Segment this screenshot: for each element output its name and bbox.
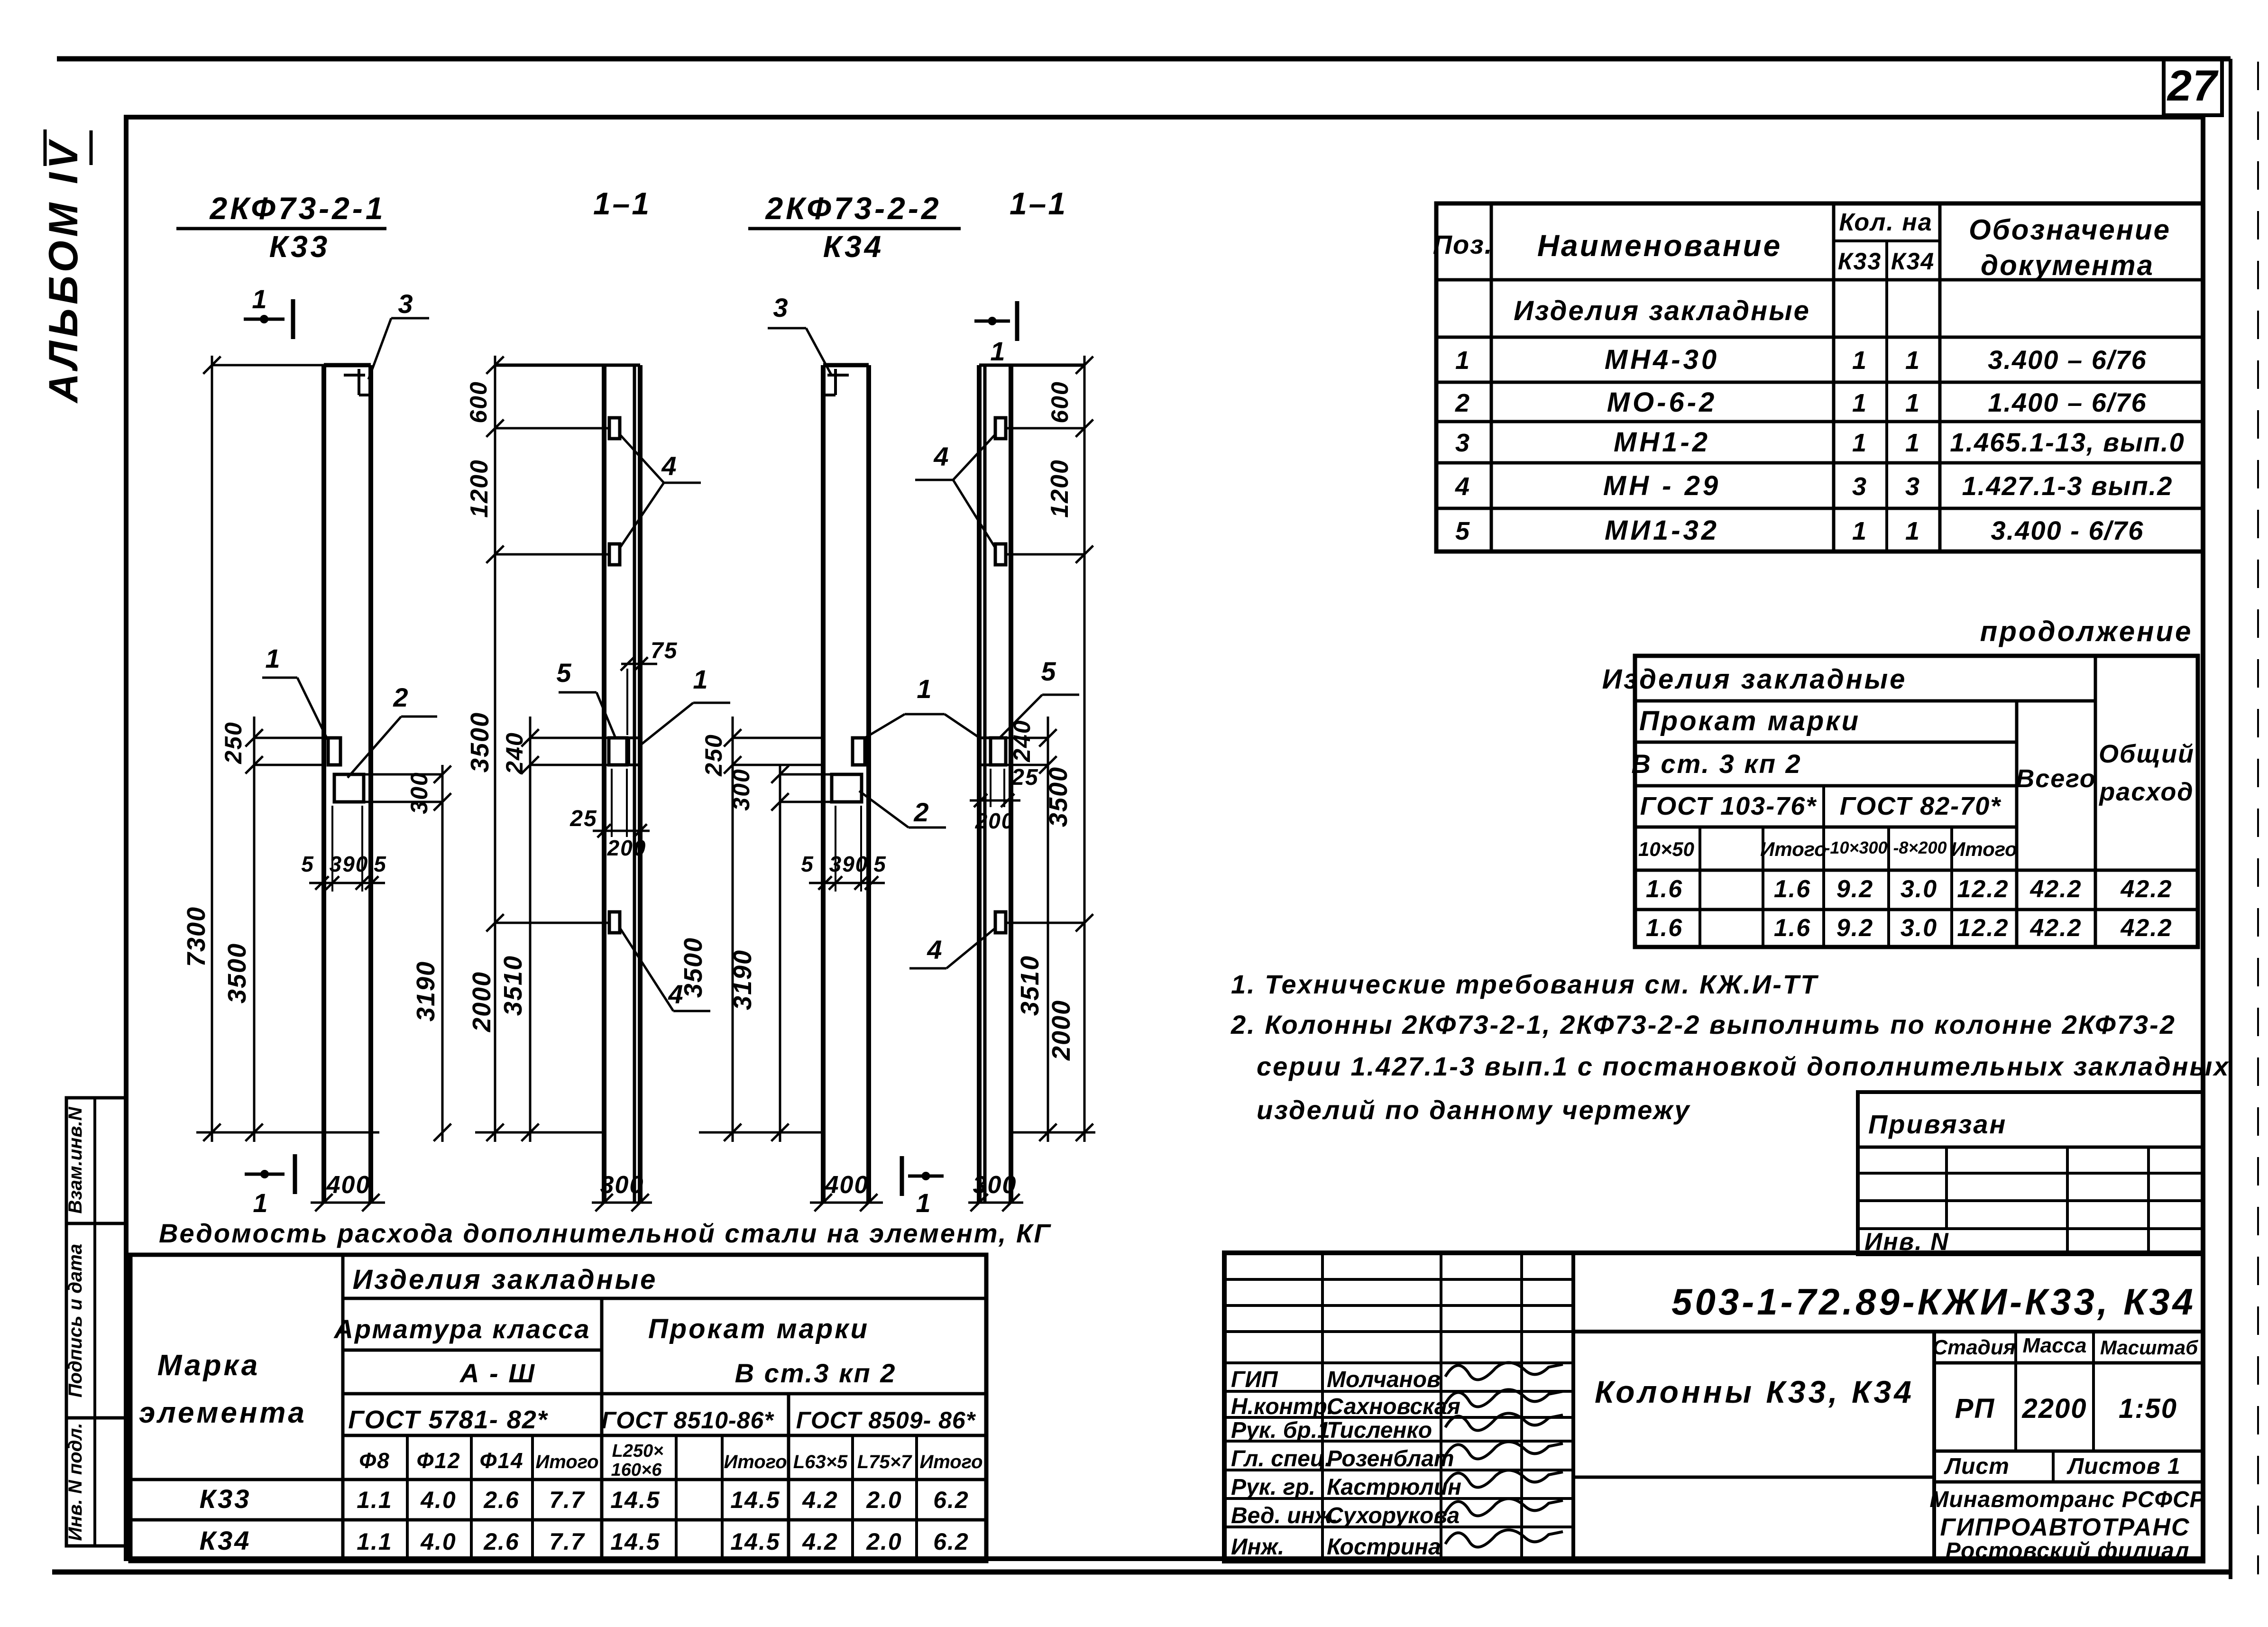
svg-text:МО-6-2: МО-6-2 bbox=[1607, 387, 1717, 418]
svg-text:1: 1 bbox=[1852, 389, 1867, 417]
svg-text:Итого: Итого bbox=[1951, 838, 2017, 860]
svg-text:2000: 2000 bbox=[1047, 1000, 1075, 1061]
svg-text:400: 400 bbox=[825, 1171, 869, 1199]
svg-text:4.0: 4.0 bbox=[420, 1528, 457, 1555]
svg-text:Кол. на: Кол. на bbox=[1839, 209, 1932, 236]
svg-text:Кастрюлин: Кастрюлин bbox=[1327, 1475, 1461, 1500]
svg-text:Ведомость расхода дополнительн: Ведомость расхода дополнительной стали н… bbox=[159, 1218, 1052, 1248]
svg-text:10×50: 10×50 bbox=[1638, 838, 1694, 860]
svg-text:Стадия: Стадия bbox=[1932, 1336, 2015, 1359]
svg-text:75: 75 bbox=[651, 638, 678, 663]
svg-text:5: 5 bbox=[873, 852, 887, 876]
svg-text:600: 600 bbox=[465, 381, 492, 423]
svg-text:1: 1 bbox=[1905, 429, 1920, 457]
svg-text:5: 5 bbox=[301, 852, 314, 876]
svg-text:6.2: 6.2 bbox=[933, 1528, 969, 1555]
svg-text:В ст. 3 кп 2: В ст. 3 кп 2 bbox=[1631, 749, 1801, 779]
svg-text:Марка: Марка bbox=[157, 1349, 260, 1382]
svg-text:3190: 3190 bbox=[728, 949, 757, 1010]
svg-text:1: 1 bbox=[1905, 346, 1920, 375]
svg-text:300: 300 bbox=[600, 1171, 644, 1199]
svg-text:1: 1 bbox=[917, 674, 932, 704]
svg-text:3.400 - 6/76: 3.400 - 6/76 bbox=[1991, 515, 2144, 545]
svg-text:Наименование: Наименование bbox=[1537, 229, 1782, 263]
svg-text:200: 200 bbox=[975, 809, 1015, 833]
svg-text:серии 1.427.1-3 вып.1 с постан: серии 1.427.1-3 вып.1 с постановкой допо… bbox=[1257, 1051, 2230, 1081]
svg-text:Молчанов: Молчанов bbox=[1327, 1367, 1441, 1392]
svg-text:2.6: 2.6 bbox=[483, 1528, 520, 1555]
svg-text:МИ1-32: МИ1-32 bbox=[1605, 515, 1719, 546]
svg-text:Поз.: Поз. bbox=[1433, 230, 1493, 259]
svg-text:600: 600 bbox=[1047, 381, 1073, 423]
svg-text:240: 240 bbox=[501, 732, 528, 774]
svg-text:2: 2 bbox=[913, 797, 929, 827]
svg-text:160×6: 160×6 bbox=[611, 1460, 662, 1480]
svg-text:200: 200 bbox=[607, 836, 647, 860]
svg-text:Итого: Итого bbox=[724, 1452, 787, 1472]
svg-text:5: 5 bbox=[556, 658, 572, 688]
svg-text:МН - 29: МН - 29 bbox=[1603, 470, 1721, 501]
svg-text:25: 25 bbox=[1011, 765, 1038, 790]
svg-text:14.5: 14.5 bbox=[730, 1487, 780, 1513]
svg-text:1: 1 bbox=[252, 284, 267, 314]
svg-text:Изделия закладные: Изделия закладные bbox=[1602, 664, 1907, 695]
svg-text:12.2: 12.2 bbox=[1957, 914, 2009, 942]
svg-text:изделий по данному чертежу: изделий по данному чертежу bbox=[1257, 1095, 1691, 1125]
svg-text:1: 1 bbox=[1455, 346, 1470, 375]
svg-text:ГОСТ 8510-86*: ГОСТ 8510-86* bbox=[601, 1407, 774, 1434]
svg-text:Взам.инв.N: Взам.инв.N bbox=[65, 1106, 86, 1213]
svg-text:Кострина: Кострина bbox=[1327, 1535, 1441, 1560]
svg-text:42.2: 42.2 bbox=[2029, 875, 2082, 903]
svg-text:3: 3 bbox=[1905, 472, 1920, 501]
svg-text:МН4-30: МН4-30 bbox=[1605, 344, 1719, 375]
svg-text:1: 1 bbox=[916, 1188, 931, 1218]
svg-text:1: 1 bbox=[693, 664, 708, 694]
svg-text:Сахновская: Сахновская bbox=[1327, 1394, 1460, 1419]
svg-text:3.400 – 6/76: 3.400 – 6/76 bbox=[1988, 345, 2147, 375]
svg-text:1: 1 bbox=[1852, 517, 1867, 545]
svg-text:14.5: 14.5 bbox=[610, 1528, 660, 1555]
svg-text:3500: 3500 bbox=[223, 943, 251, 1003]
svg-text:ГОСТ 82-70*: ГОСТ 82-70* bbox=[1840, 792, 2002, 820]
svg-text:1: 1 bbox=[1905, 389, 1920, 417]
svg-text:4.2: 4.2 bbox=[802, 1528, 838, 1555]
svg-text:300: 300 bbox=[728, 768, 754, 810]
svg-text:3500: 3500 bbox=[466, 712, 494, 772]
svg-text:1–1: 1–1 bbox=[593, 186, 651, 221]
svg-text:расход: расход bbox=[2098, 778, 2194, 806]
svg-text:503-1-72.89-КЖИ-К33, К34: 503-1-72.89-КЖИ-К33, К34 bbox=[1671, 1281, 2196, 1323]
svg-text:Обозначение: Обозначение bbox=[1969, 214, 2171, 246]
svg-text:2. Колонны 2КФ73-2-1, 2КФ73-2-: 2. Колонны 2КФ73-2-1, 2КФ73-2-2 выполнит… bbox=[1230, 1010, 2176, 1039]
svg-text:3: 3 bbox=[773, 293, 789, 322]
svg-text:1.6: 1.6 bbox=[1774, 875, 1811, 903]
svg-text:2.0: 2.0 bbox=[866, 1528, 902, 1555]
svg-text:1: 1 bbox=[265, 643, 281, 673]
svg-text:3: 3 bbox=[398, 289, 413, 319]
svg-text:27: 27 bbox=[2167, 62, 2219, 110]
svg-text:Итого: Итого bbox=[919, 1452, 982, 1472]
svg-text:1: 1 bbox=[253, 1188, 268, 1218]
svg-text:Итого: Итого bbox=[1760, 838, 1827, 860]
svg-text:5: 5 bbox=[374, 852, 387, 876]
svg-text:Подпись и дата: Подпись и дата bbox=[65, 1244, 86, 1397]
svg-text:7.7: 7.7 bbox=[549, 1487, 585, 1513]
svg-text:К33: К33 bbox=[200, 1484, 251, 1514]
svg-text:1.6: 1.6 bbox=[1646, 875, 1683, 903]
svg-text:ГИПРОАВТОТРАНС: ГИПРОАВТОТРАНС bbox=[1940, 1514, 2190, 1541]
svg-text:Прокат марки: Прокат марки bbox=[648, 1314, 869, 1344]
svg-text:Инв. N подл.: Инв. N подл. bbox=[65, 1423, 86, 1541]
svg-text:Всего: Всего bbox=[2016, 764, 2096, 793]
svg-text:К34: К34 bbox=[823, 230, 884, 264]
svg-text:документа: документа bbox=[1981, 249, 2154, 281]
svg-text:1: 1 bbox=[990, 336, 1006, 366]
svg-text:Сухорукова: Сухорукова bbox=[1327, 1503, 1460, 1528]
svg-text:Вед. инж.: Вед. инж. bbox=[1231, 1503, 1338, 1528]
svg-text:1. Технические требования: 1. Технические требования см. КЖ.И-ТТ bbox=[1231, 969, 1819, 999]
svg-text:250: 250 bbox=[220, 721, 247, 764]
svg-text:Изделия закладные: Изделия закладные bbox=[353, 1264, 658, 1295]
svg-text:Лист: Лист bbox=[1944, 1454, 2010, 1479]
svg-text:Ф14: Ф14 bbox=[479, 1448, 523, 1473]
svg-text:4: 4 bbox=[927, 935, 943, 965]
svg-text:Ростовский филиал: Ростовский филиал bbox=[1946, 1538, 2190, 1563]
svg-text:1:50: 1:50 bbox=[2119, 1393, 2177, 1424]
svg-text:Масштаб: Масштаб bbox=[2100, 1336, 2198, 1359]
svg-text:Рук. бр.1: Рук. бр.1 bbox=[1231, 1418, 1330, 1443]
svg-text:Листов 1: Листов 1 bbox=[2066, 1454, 2180, 1479]
svg-text:1.6: 1.6 bbox=[1646, 914, 1683, 942]
svg-text:1.427.1-3 вып.2: 1.427.1-3 вып.2 bbox=[1962, 471, 2173, 501]
svg-text:4: 4 bbox=[661, 451, 677, 481]
svg-text:9.2: 9.2 bbox=[1836, 914, 1873, 942]
svg-text:42.2: 42.2 bbox=[2029, 914, 2082, 942]
svg-text:300: 300 bbox=[973, 1171, 1017, 1199]
svg-text:Прокат марки: Прокат марки bbox=[1639, 706, 1860, 736]
svg-text:Привязан: Привязан bbox=[1868, 1109, 2007, 1139]
svg-text:1–1: 1–1 bbox=[1010, 186, 1067, 221]
svg-text:1200: 1200 bbox=[466, 459, 493, 518]
svg-text:В ст.3 кп 2: В ст.3 кп 2 bbox=[735, 1358, 897, 1388]
svg-text:7.7: 7.7 bbox=[549, 1528, 585, 1555]
svg-text:L250×: L250× bbox=[612, 1441, 664, 1461]
svg-text:2КФ73-2-2: 2КФ73-2-2 bbox=[764, 191, 941, 226]
svg-text:ГОСТ 5781- 82*: ГОСТ 5781- 82* bbox=[348, 1406, 549, 1434]
svg-text:250: 250 bbox=[700, 734, 727, 776]
svg-text:Инж.: Инж. bbox=[1231, 1535, 1284, 1560]
svg-text:К33: К33 bbox=[269, 230, 331, 264]
svg-text:3: 3 bbox=[1852, 472, 1867, 501]
svg-text:L63×5: L63×5 bbox=[793, 1452, 848, 1472]
svg-text:элемента: элемента bbox=[139, 1397, 307, 1429]
svg-text:РП: РП bbox=[1955, 1393, 1995, 1424]
svg-text:1.1: 1.1 bbox=[357, 1528, 393, 1555]
svg-text:2000: 2000 bbox=[468, 971, 496, 1032]
svg-text:1.6: 1.6 bbox=[1774, 914, 1811, 942]
svg-text:2: 2 bbox=[1455, 389, 1470, 417]
svg-text:Ф12: Ф12 bbox=[416, 1448, 460, 1473]
svg-text:2: 2 bbox=[393, 682, 409, 712]
svg-text:2200: 2200 bbox=[2021, 1393, 2087, 1424]
svg-text:3190: 3190 bbox=[412, 961, 440, 1021]
svg-text:300: 300 bbox=[406, 772, 432, 814]
svg-text:5: 5 bbox=[1455, 517, 1470, 545]
svg-text:Масса: Масса bbox=[2022, 1334, 2086, 1357]
svg-text:390: 390 bbox=[829, 852, 869, 876]
svg-text:5: 5 bbox=[1041, 656, 1056, 686]
svg-text:4: 4 bbox=[933, 441, 949, 471]
svg-text:Гл. спец.: Гл. спец. bbox=[1231, 1446, 1331, 1471]
svg-text:3510: 3510 bbox=[1016, 955, 1044, 1016]
svg-text:14.5: 14.5 bbox=[730, 1528, 780, 1555]
svg-text:3510: 3510 bbox=[499, 955, 527, 1016]
svg-text:Н.контр.: Н.контр. bbox=[1231, 1394, 1333, 1419]
svg-text:-10×300: -10×300 bbox=[1824, 838, 1887, 857]
svg-text:2.0: 2.0 bbox=[866, 1487, 902, 1513]
svg-text:ГОСТ 103-76*: ГОСТ 103-76* bbox=[1640, 792, 1818, 820]
svg-text:4.0: 4.0 bbox=[420, 1487, 457, 1513]
svg-text:1200: 1200 bbox=[1046, 459, 1074, 518]
svg-text:К34: К34 bbox=[1891, 248, 1935, 275]
svg-text:14.5: 14.5 bbox=[610, 1487, 660, 1513]
svg-text:3: 3 bbox=[1455, 429, 1470, 457]
svg-text:Арматура класса: Арматура класса bbox=[333, 1314, 590, 1344]
svg-text:Итого: Итого bbox=[535, 1452, 598, 1472]
svg-text:400: 400 bbox=[326, 1171, 371, 1199]
svg-text:Розенблат: Розенблат bbox=[1327, 1446, 1454, 1471]
svg-text:2.6: 2.6 bbox=[483, 1487, 520, 1513]
svg-text:1.465.1-13, вып.0: 1.465.1-13, вып.0 bbox=[1950, 427, 2185, 457]
svg-text:Минавтотранс РСФСР: Минавтотранс РСФСР bbox=[1929, 1487, 2205, 1512]
svg-text:3.0: 3.0 bbox=[1901, 875, 1937, 903]
svg-text:1.1: 1.1 bbox=[357, 1487, 393, 1513]
svg-text:4: 4 bbox=[1455, 472, 1470, 501]
svg-text:1: 1 bbox=[1852, 429, 1867, 457]
svg-text:ГИП: ГИП bbox=[1231, 1367, 1278, 1392]
svg-text:К33: К33 bbox=[1838, 248, 1882, 275]
svg-text:Общий: Общий bbox=[2099, 740, 2195, 768]
svg-text:2КФ73-2-1: 2КФ73-2-1 bbox=[209, 191, 386, 226]
svg-text:Ф8: Ф8 bbox=[359, 1448, 390, 1473]
svg-text:6.2: 6.2 bbox=[933, 1487, 969, 1513]
svg-text:продолжение: продолжение bbox=[1980, 616, 2193, 647]
svg-text:4.2: 4.2 bbox=[802, 1487, 838, 1513]
svg-text:12.2: 12.2 bbox=[1957, 875, 2009, 903]
svg-text:390: 390 bbox=[330, 852, 369, 876]
svg-text:1.400 – 6/76: 1.400 – 6/76 bbox=[1988, 387, 2147, 417]
svg-text:-8×200: -8×200 bbox=[1893, 838, 1947, 857]
svg-text:L75×7: L75×7 bbox=[857, 1452, 912, 1472]
svg-text:7300: 7300 bbox=[182, 906, 211, 967]
svg-text:Рук. гр.: Рук. гр. bbox=[1231, 1475, 1315, 1500]
svg-text:ГОСТ 8509- 86*: ГОСТ 8509- 86* bbox=[796, 1407, 976, 1434]
svg-text:9.2: 9.2 bbox=[1836, 875, 1873, 903]
svg-text:АЛЬБОМ IV: АЛЬБОМ IV bbox=[41, 138, 86, 404]
svg-text:25: 25 bbox=[569, 806, 597, 831]
svg-text:Колонны К33, К34: Колонны К33, К34 bbox=[1595, 1374, 1914, 1409]
svg-text:МН1-2: МН1-2 bbox=[1614, 427, 1710, 458]
svg-text:5: 5 bbox=[801, 852, 814, 876]
svg-text:42.2: 42.2 bbox=[2120, 914, 2172, 942]
svg-text:А - Ш: А - Ш bbox=[459, 1358, 536, 1388]
svg-text:К34: К34 bbox=[200, 1526, 251, 1555]
svg-text:1: 1 bbox=[1852, 346, 1867, 375]
svg-text:3.0: 3.0 bbox=[1901, 914, 1937, 942]
svg-text:Тисленко: Тисленко bbox=[1327, 1418, 1432, 1443]
svg-text:Изделия закладные: Изделия закладные bbox=[1514, 295, 1810, 326]
svg-text:3500: 3500 bbox=[679, 937, 707, 998]
svg-text:1: 1 bbox=[1905, 517, 1920, 545]
svg-text:42.2: 42.2 bbox=[2120, 875, 2172, 903]
